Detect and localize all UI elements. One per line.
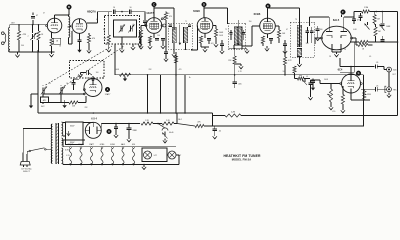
ground heater <box>142 164 146 170</box>
6AL5 top wires <box>310 17 355 27</box>
value label 100 <box>96 72 99 74</box>
wire bus1 horizontal <box>38 50 213 114</box>
wire bottom right net <box>350 40 398 43</box>
svg-text:B: B <box>68 6 70 9</box>
pilot lamp housing <box>142 148 167 162</box>
resistor R23 68K <box>293 66 310 80</box>
cathode parts V3 <box>148 33 165 49</box>
capacitor C4 <box>113 7 115 14</box>
svg-text:10: 10 <box>130 7 132 9</box>
svg-text:6 X 4: 6 X 4 <box>91 118 97 121</box>
wire osc section <box>42 84 44 87</box>
svg-text:470: 470 <box>179 69 182 71</box>
6AL5 pin circles <box>321 37 353 39</box>
wire 6AL5 right pin <box>352 38 356 45</box>
svg-text:20MF: 20MF <box>133 130 137 132</box>
wire vertical mid4 <box>184 75 186 113</box>
wire V3 plate top right <box>154 8 174 30</box>
node C test point <box>152 2 157 18</box>
cathode parts V4 <box>199 33 211 52</box>
variable capacitor C6a main tuning <box>119 25 125 33</box>
wire V5 plate top <box>268 8 300 17</box>
svg-text:6CB6: 6CB6 <box>100 144 105 146</box>
ground jack J2 <box>387 93 391 98</box>
capacitor C5 <box>130 7 132 14</box>
svg-text:7: 7 <box>133 24 134 26</box>
heater top rail <box>63 140 176 147</box>
wire input top <box>10 24 48 28</box>
wire input bottom <box>10 49 55 52</box>
value label 330 <box>320 29 323 31</box>
svg-text:T2: T2 <box>225 29 227 31</box>
svg-text:MODEL FM-2A: MODEL FM-2A <box>232 158 252 162</box>
capacitor C9 <box>220 40 224 54</box>
svg-text:A: A <box>107 88 109 91</box>
svg-text:10: 10 <box>168 13 170 15</box>
heater V2 6BQ7A <box>78 143 85 165</box>
variable capacitor C24 osc trimmer <box>59 85 65 103</box>
dashed enclosure tuning unit <box>105 16 140 45</box>
T3 tertiary coil <box>297 49 302 57</box>
wire <box>115 11 128 13</box>
wire <box>131 12 145 18</box>
resistor R22 filter2 <box>162 120 174 125</box>
coil L2 interstage <box>69 17 73 45</box>
value label 7 <box>143 28 144 30</box>
wire osc h <box>42 93 84 94</box>
value label 4.7K <box>238 71 242 73</box>
tube V4 6CB6 <box>197 18 213 34</box>
cathode V2 <box>77 33 81 52</box>
filter capacitor C26 <box>158 124 173 143</box>
svg-text:.005: .005 <box>210 43 213 45</box>
wire vertical mid3 <box>164 48 178 113</box>
heater V4 6CB6 <box>100 144 105 165</box>
wire top bus <box>98 11 113 13</box>
wire V5 grid <box>242 26 260 46</box>
T3 internal caps <box>306 27 314 38</box>
pin circles V8 <box>340 83 362 85</box>
value label APC <box>41 105 45 108</box>
node H test point <box>107 129 112 134</box>
svg-text:150: 150 <box>249 21 252 23</box>
value label 1K <box>344 49 347 51</box>
value label 22K <box>148 69 152 71</box>
svg-text:6CB6: 6CB6 <box>193 9 200 13</box>
resistor R2 input <box>37 25 44 52</box>
variable capacitor C23 osc tuning <box>41 85 47 97</box>
heater V1 6BQ7A <box>68 143 75 165</box>
wire to jack2 <box>361 88 387 90</box>
label 12AT7 <box>146 11 154 15</box>
cathode network V1 <box>49 32 60 57</box>
wire <box>369 11 397 13</box>
ground arrow <box>235 64 244 69</box>
heater V6 6AL5 <box>121 143 125 165</box>
value label 330 <box>306 43 309 45</box>
IF transformer T2 dashed can <box>228 23 246 49</box>
filter capacitor C25 <box>127 123 137 142</box>
svg-text:300: 300 <box>21 45 24 47</box>
value label 15 <box>49 83 51 85</box>
value label 100K <box>219 35 224 37</box>
jack J1 output <box>387 67 398 72</box>
svg-text:6CB6: 6CB6 <box>254 12 261 16</box>
svg-text:150: 150 <box>198 29 201 31</box>
tube V1 6BQ7A-a <box>47 18 62 33</box>
wire vertical mid1 <box>147 75 149 113</box>
wire audio top <box>340 58 375 74</box>
de-emphasis parts <box>303 79 316 91</box>
value label B+ <box>189 77 191 79</box>
svg-text:OUT: OUT <box>392 74 396 76</box>
resistor R12 <box>373 12 380 26</box>
capacitor C17 output2 <box>376 85 379 91</box>
pin circle V2 <box>70 25 72 27</box>
pilot lamp PL2 <box>168 151 181 159</box>
value label 10K <box>282 71 286 73</box>
V9 internals <box>87 122 100 134</box>
svg-text:1.5M: 1.5M <box>364 7 369 9</box>
wire bus3 lower audio line <box>204 125 364 127</box>
capacitor C22 osc <box>72 79 80 90</box>
T2 primary coil <box>234 27 238 45</box>
svg-text:350V: 350V <box>70 126 75 128</box>
value label 500K <box>324 79 329 81</box>
capacitor C7 <box>143 18 147 26</box>
tuning gang box <box>114 20 137 37</box>
svg-text:15: 15 <box>66 83 68 85</box>
svg-text:12AT7: 12AT7 <box>105 93 112 96</box>
subtitle MODEL FM-2A <box>232 158 252 162</box>
capacitor C19 005 <box>232 77 241 89</box>
antenna coil L1 <box>8 28 9 53</box>
value label .05 <box>369 56 371 58</box>
svg-text:.02: .02 <box>219 131 222 133</box>
resistor R17 on bus <box>120 73 131 81</box>
svg-text:330: 330 <box>320 29 323 31</box>
wire vertical mid5 right <box>363 75 365 127</box>
value label 47 <box>286 29 288 31</box>
resistor R18 475 <box>283 48 292 75</box>
T2 secondary coil <box>238 27 242 45</box>
wire <box>153 123 162 125</box>
svg-text:470: 470 <box>169 16 172 18</box>
svg-text:ANT: ANT <box>11 22 14 25</box>
pin circle V1 grid <box>46 25 48 27</box>
transformer T4 primary <box>51 124 52 164</box>
value label .01 <box>306 76 308 78</box>
wire top right <box>354 12 362 18</box>
T2 internal caps <box>229 30 245 40</box>
wire bus2 audio line <box>213 111 398 117</box>
svg-text:2.2M: 2.2M <box>231 111 236 113</box>
value label NE-2 <box>178 119 182 121</box>
wire to jack1 <box>377 67 386 70</box>
filter capacitor C24b input <box>114 123 118 138</box>
label 6CB6 V4 <box>193 9 200 13</box>
capacitor C20 02 <box>213 126 221 139</box>
resistor R9 22K <box>228 48 236 77</box>
wire 6AL5 left pin <box>315 38 321 44</box>
svg-text:6BQ7A: 6BQ7A <box>87 10 96 14</box>
wire grid V8 <box>331 83 340 85</box>
value label 300 <box>21 45 24 47</box>
svg-text:VOL: VOL <box>332 111 335 113</box>
svg-text:47: 47 <box>36 15 38 17</box>
T3 bottom leads <box>297 38 311 67</box>
wire V1 plate to top <box>55 15 69 18</box>
V7 grid cap <box>92 76 94 81</box>
antenna terminals <box>2 32 6 45</box>
value label T3 <box>295 19 297 21</box>
resistor R4 grid <box>104 12 112 52</box>
T2 bottom leads <box>228 45 245 49</box>
svg-text:6C4: 6C4 <box>338 68 343 72</box>
svg-text:6BQ7A: 6BQ7A <box>68 143 75 146</box>
svg-text:6AL5: 6AL5 <box>121 143 125 146</box>
svg-text:7: 7 <box>143 28 144 30</box>
transformer T4 secondary HV <box>62 122 63 136</box>
node G test point <box>356 71 361 76</box>
V9 plate wires <box>83 123 101 131</box>
wire V4 grid <box>191 26 198 51</box>
gang line dashed 2 <box>62 46 125 88</box>
value label 10 <box>168 13 170 15</box>
svg-text:100: 100 <box>96 72 99 74</box>
value label 1M <box>103 29 106 31</box>
wire vertical mid2 <box>160 75 162 113</box>
svg-text:.05: .05 <box>376 62 379 64</box>
resistor R6 screen <box>163 12 172 48</box>
capacitor C12 470 <box>352 17 360 24</box>
svg-text:47: 47 <box>96 19 98 21</box>
svg-text:330: 330 <box>306 43 309 45</box>
T1 primary coil <box>172 27 176 43</box>
resistor R1 input <box>17 25 26 52</box>
svg-text:40-40: 40-40 <box>169 132 173 134</box>
capacitor C1 trimmer <box>28 25 37 52</box>
ground mid <box>131 45 135 50</box>
svg-text:15: 15 <box>49 83 51 85</box>
volume control R16 <box>327 84 333 110</box>
label 6.3V <box>65 150 69 152</box>
tube V9 6X4 <box>85 122 101 138</box>
wire osc bottom <box>45 102 68 105</box>
svg-text:6CB6: 6CB6 <box>110 144 115 146</box>
wire B+ bus upper <box>115 44 364 76</box>
value label 47 <box>96 19 98 21</box>
wires secondary <box>63 123 85 165</box>
capacitor C14 <box>359 13 363 21</box>
svg-text:T3: T3 <box>295 19 297 21</box>
resistor R5 under V3 <box>139 26 146 50</box>
svg-text:10: 10 <box>113 7 115 9</box>
jack J2 output <box>385 86 398 92</box>
tube V8 6C4 <box>342 74 361 93</box>
svg-text:.05: .05 <box>376 85 379 87</box>
svg-text:D: D <box>203 3 205 6</box>
resistor R8 under V5 <box>275 26 286 43</box>
6AL5 bottom leads <box>332 44 341 57</box>
svg-text:6BQ7A: 6BQ7A <box>78 143 85 146</box>
terminal box power <box>66 122 84 145</box>
svg-text:10MF: 10MF <box>386 26 390 28</box>
heater V5 6CB6 <box>110 144 115 165</box>
svg-text:.05: .05 <box>369 56 371 58</box>
capacitor C8 right of box <box>138 32 142 47</box>
value label .005 <box>210 43 213 45</box>
label 117 volt <box>21 168 32 173</box>
resistor R21 filter <box>141 120 153 125</box>
wire cathode junction <box>351 92 370 101</box>
svg-text:B+: B+ <box>189 77 191 79</box>
value label 6.8K <box>353 29 357 31</box>
IF transformer T1 dashed can <box>168 23 192 49</box>
electrolytic C15 arrow <box>365 22 370 30</box>
T2 tuning slug <box>237 20 240 46</box>
tube V3 12AT7 <box>146 18 162 34</box>
value label 47 <box>43 13 45 15</box>
capacitor C2 top-left <box>31 13 38 25</box>
resistor R13 <box>374 24 381 42</box>
T3 primary coil <box>297 25 302 47</box>
label 6CB6 V5 <box>254 12 261 16</box>
node B test point <box>67 5 72 15</box>
title HEATHKIT FM TUNER <box>223 154 260 158</box>
paper background <box>0 0 400 175</box>
node F test point <box>341 10 346 17</box>
value label 1K <box>59 46 62 48</box>
wire V1 grid <box>46 24 48 27</box>
resistor R15 470K <box>363 89 372 100</box>
value label 100K <box>115 69 120 71</box>
heater V7 6C4 <box>132 144 135 165</box>
tube V2 6BQ7A-b <box>72 19 87 34</box>
transformer T4 secondary heater1 <box>62 138 63 145</box>
resistor R11 1.5M <box>362 7 370 13</box>
tube V7 oscillator 12AT7-b <box>84 79 102 97</box>
ground osc caps <box>29 94 43 108</box>
discriminator transformer T3 dashed can <box>290 22 314 57</box>
wire V4 plate top <box>204 8 228 24</box>
B+ junction up <box>174 113 177 124</box>
label 6BQ7A <box>87 10 96 14</box>
svg-text:HEATHKIT FM TUNER: HEATHKIT FM TUNER <box>223 154 260 158</box>
resistor R10 detector load <box>356 43 373 50</box>
svg-text:150: 150 <box>157 35 160 37</box>
value label 6.3V <box>66 155 70 157</box>
V7 pin circles <box>83 89 85 95</box>
svg-text:470: 470 <box>357 20 360 22</box>
value label 7 <box>133 24 134 26</box>
oscillator grid cap C21 <box>78 70 92 77</box>
wire bus2 corner <box>212 113 214 126</box>
value label VOL <box>332 111 335 113</box>
svg-text:.01: .01 <box>306 76 308 78</box>
wire between jacks <box>388 72 390 87</box>
svg-text:12AT7: 12AT7 <box>146 11 154 15</box>
wire tuning to ground <box>120 37 124 52</box>
node A test point <box>105 87 112 96</box>
resistor R14 cathode <box>341 86 351 113</box>
lamp wires <box>167 155 179 165</box>
T1 tuning slug <box>179 25 182 46</box>
value label 150 <box>198 29 201 31</box>
svg-text:12AT7: 12AT7 <box>89 143 94 146</box>
label 6X4 <box>91 118 97 121</box>
dashed enclosure oscillator <box>70 61 105 79</box>
AC plug <box>20 153 30 167</box>
value label 15 <box>66 83 68 85</box>
value label 47 <box>77 76 79 78</box>
wire top V1-V2 <box>68 14 70 16</box>
svg-text:NE-2: NE-2 <box>178 119 182 121</box>
svg-text:47: 47 <box>286 29 288 31</box>
T1 internal caps <box>169 25 191 27</box>
heater bottom rail <box>63 164 179 166</box>
pilot lamp PL1 <box>144 151 157 159</box>
svg-text:H: H <box>108 130 110 133</box>
value label 150 <box>249 21 252 23</box>
T3 tuning slug <box>298 17 301 47</box>
capacitor C18 grid <box>308 80 331 100</box>
B+ wire from rectifier <box>101 124 140 131</box>
AC wires <box>23 124 51 154</box>
svg-text:470: 470 <box>92 38 95 40</box>
T1 secondary coil <box>184 27 188 43</box>
wire V2 plate right <box>87 12 98 23</box>
value label 2K <box>329 56 332 58</box>
svg-text:7: 7 <box>28 36 29 38</box>
gang line dashed 1 <box>46 46 113 85</box>
capacitor C27 mid right <box>380 36 384 42</box>
value label OUT <box>392 74 396 76</box>
resistor R7 under V4 100K <box>213 26 224 47</box>
value label .005 <box>260 43 263 45</box>
value label 150 <box>157 35 160 37</box>
capacitor C10 <box>283 40 287 54</box>
svg-text:50/60 CY: 50/60 CY <box>23 171 31 173</box>
resistor R3 470 under V2 <box>87 33 95 53</box>
label 6AL5 <box>333 18 340 22</box>
svg-text:T1: T1 <box>185 21 187 23</box>
value label T2 <box>225 29 227 31</box>
variable capacitor C6b main tuning <box>128 25 134 33</box>
T1 bottom leads <box>172 43 186 57</box>
value label 470 <box>179 69 182 71</box>
svg-text:47: 47 <box>43 13 45 15</box>
tube V5 6CB6 <box>260 18 276 34</box>
resistor R19 47K <box>177 122 204 128</box>
tube V6 6AL5 <box>322 26 352 50</box>
node E test point <box>266 4 271 19</box>
osc padder box <box>41 97 49 103</box>
capacitor C16 output <box>376 62 379 69</box>
value label 22K <box>84 107 88 109</box>
heater V3 12AT7 <box>89 143 94 165</box>
resistor R20 osc grid <box>67 96 86 108</box>
label 6C4 <box>338 68 343 72</box>
svg-text:.005: .005 <box>238 84 242 86</box>
switch SW1 <box>27 148 51 164</box>
value label ANT <box>11 22 14 25</box>
transformer T4 secondary heater2 <box>62 148 63 164</box>
ground osc <box>62 100 66 108</box>
value label T1 <box>185 21 187 23</box>
ground input <box>15 52 19 57</box>
svg-text:6AL5: 6AL5 <box>333 18 340 22</box>
